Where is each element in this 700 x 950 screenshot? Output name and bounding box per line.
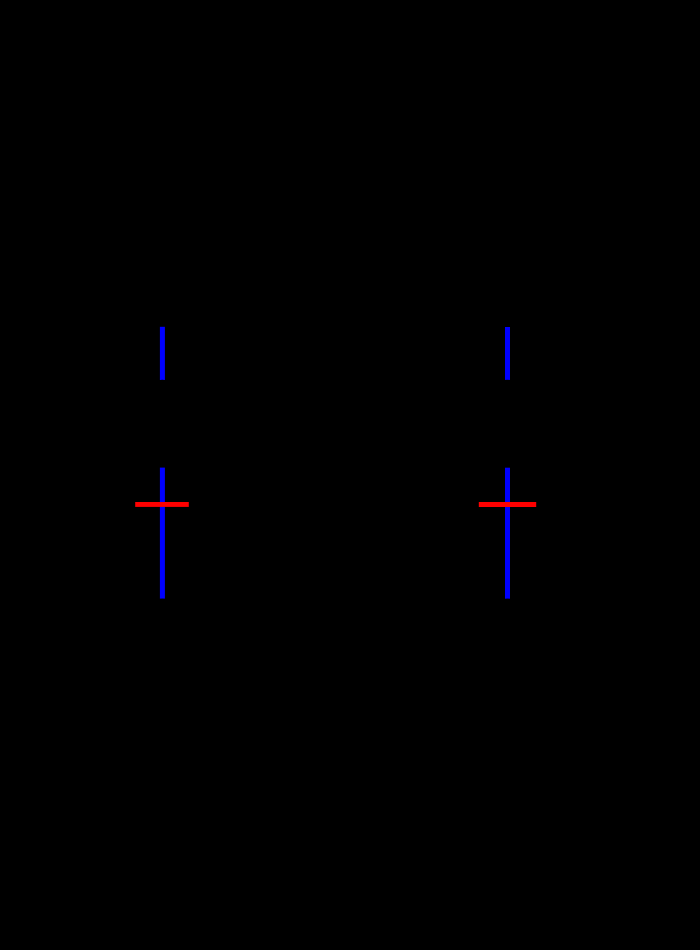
wire (right branch lower lead, hidden black)	[507, 599, 509, 620]
wire (left branch upper lead, hidden black)	[161, 300, 163, 327]
wire W1 (left branch upper segment, blue)	[160, 327, 165, 380]
wire W3 (right branch upper segment, blue)	[505, 327, 510, 380]
wire (top rail, hidden black)	[162, 299, 507, 301]
battery V2 red plate (right branch)	[479, 502, 536, 507]
wire (bottom rail, hidden black)	[162, 619, 507, 621]
wire W4 (right branch lower segment, blue)	[505, 468, 510, 599]
battery V1 red plate (left branch)	[135, 502, 189, 507]
wire (right branch upper lead, hidden black)	[507, 300, 509, 327]
wire (left branch lower lead, hidden black)	[161, 599, 163, 620]
resistor R2 (right branch, hidden black)	[498, 380, 517, 468]
wire W2 (left branch lower segment, blue)	[160, 468, 165, 599]
resistor R1 (left branch, hidden black)	[153, 380, 172, 468]
